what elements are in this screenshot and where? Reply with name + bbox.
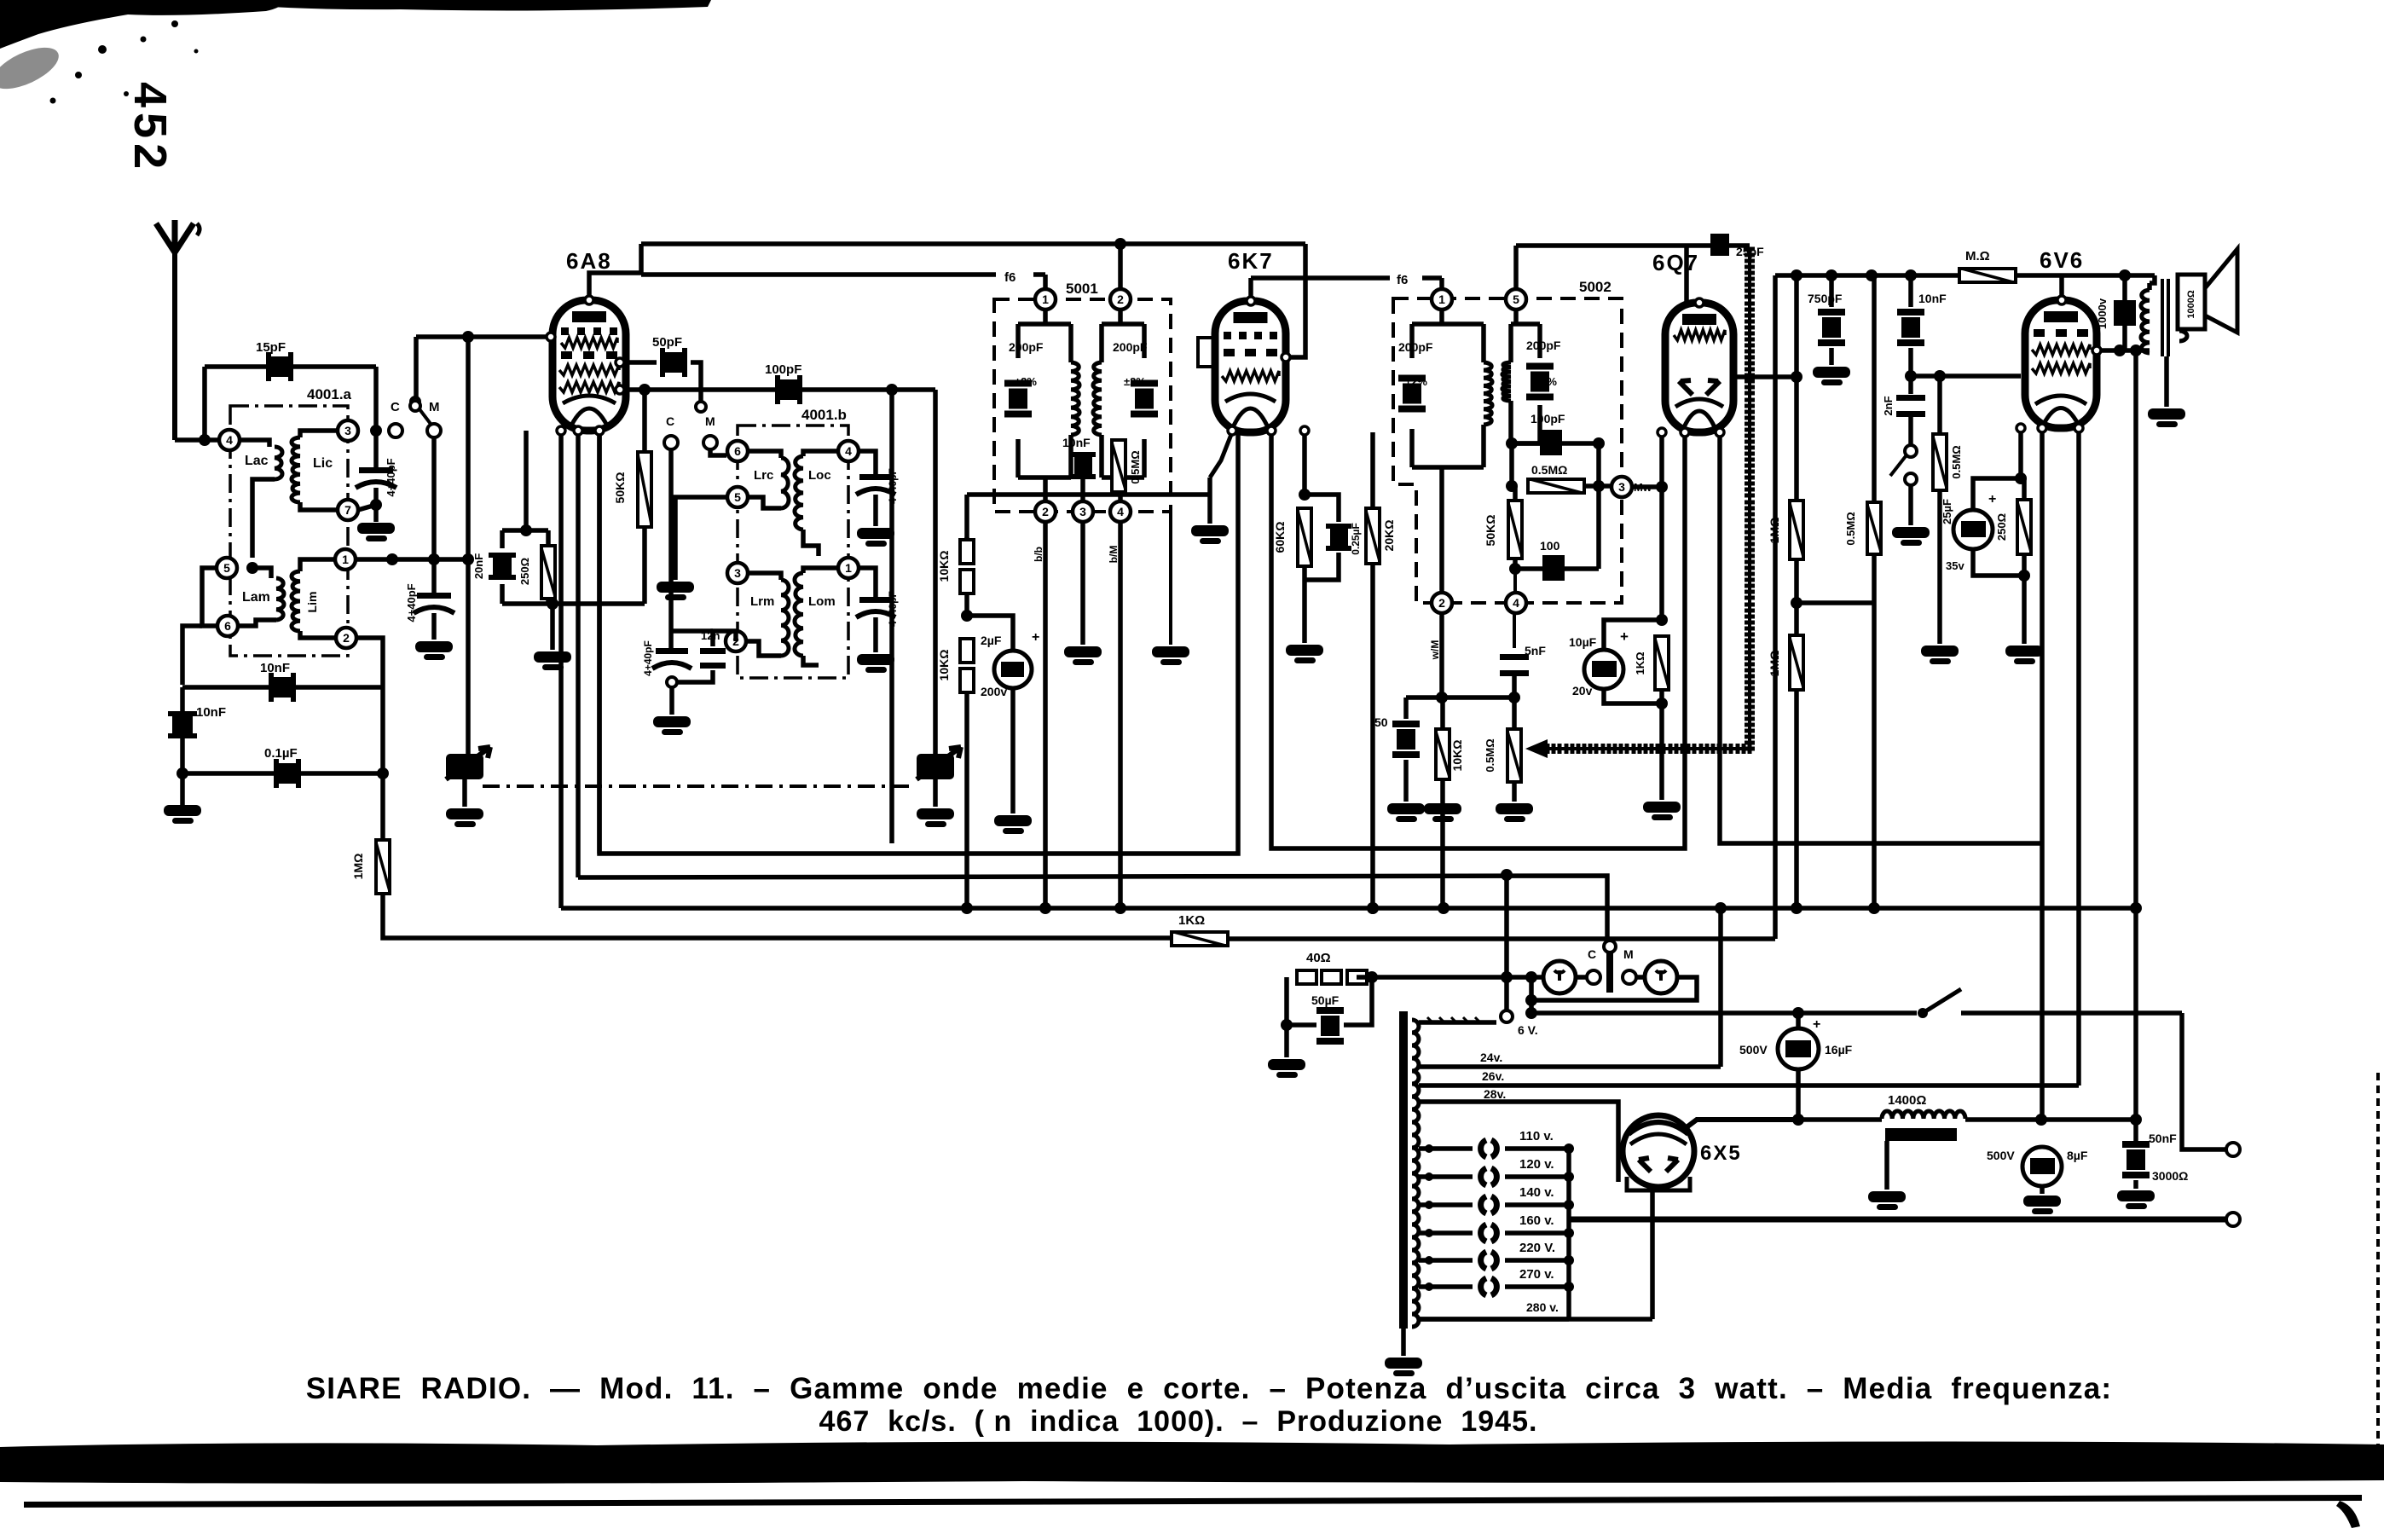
wire 1M to AF line: [383, 894, 1172, 938]
svg-text:0.5MΩ: 0.5MΩ: [1484, 738, 1496, 772]
cathode bias 6A8: [524, 431, 529, 530]
tube pin bubbles: [547, 333, 555, 341]
svg-text:200pF: 200pF: [1113, 340, 1148, 354]
6X5 base: [1627, 1177, 1690, 1190]
wire anode feed down: [2133, 350, 2138, 1143]
svg-text:10µF: 10µF: [1569, 635, 1597, 649]
svg-text:C: C: [666, 414, 674, 428]
svg-text:0.5MΩ: 0.5MΩ: [1844, 512, 1857, 545]
resistor 50k grid leak: [642, 390, 647, 452]
ground below M trimmer: [415, 641, 453, 652]
svg-text:200v: 200v: [981, 685, 1007, 698]
contact M jack: [1623, 970, 1636, 984]
capacitor 15pF: [271, 356, 288, 377]
svg-text:M: M: [705, 414, 715, 428]
svg-text:200pF: 200pF: [1398, 340, 1433, 354]
grid rail 6Q7: [1516, 243, 1750, 248]
terminal 1 IF1: [1035, 289, 1056, 310]
oscillator gang line: [889, 390, 894, 843]
capacitor 100: [1515, 566, 1599, 571]
tap 26v: [1419, 1083, 2079, 1088]
tap 110 v.: [1419, 1146, 1473, 1151]
ground 40 ohm: [1268, 1059, 1305, 1070]
ground choke core: [1884, 1141, 1889, 1190]
resistor 1M ohm: [376, 840, 390, 894]
6V6 heater wires: [2040, 428, 2045, 1120]
contact C jack: [1576, 975, 1588, 980]
svg-text:±2%: ±2%: [1015, 375, 1037, 388]
svg-text:500V: 500V: [1987, 1149, 2015, 1162]
resistor 10k: [1436, 729, 1449, 779]
wire terminal5 to ground: [675, 497, 726, 580]
svg-text:M: M: [1623, 947, 1634, 961]
svg-text:4: 4: [1513, 596, 1519, 610]
ground 50nF: [1387, 803, 1425, 814]
svg-text:10nF: 10nF: [196, 705, 226, 720]
rail 6K7 to IF2: [1251, 275, 1390, 281]
ground 6A8 cathode: [534, 651, 571, 663]
terminal 1 IF2: [1432, 289, 1452, 310]
svg-text:500V: 500V: [1739, 1043, 1768, 1057]
B+ to anode feed: [2041, 1117, 2136, 1122]
wire C osc to padder: [668, 449, 674, 648]
capacitor 2nF anode: [2122, 275, 2127, 300]
coil Lim: [300, 559, 336, 571]
wire 6A8 pin to avc bus: [558, 431, 564, 908]
IF transformer 5001 box: [994, 299, 1171, 512]
capacitor 50uF: [1287, 977, 1316, 1025]
tuning gang line 1: [466, 337, 471, 754]
IF2 primary: [1412, 321, 1484, 327]
svg-text:M: M: [429, 400, 440, 414]
IF transformer 5002 box: [1393, 298, 1622, 603]
svg-text:3: 3: [734, 566, 741, 580]
svg-text:7: 7: [344, 503, 351, 517]
svg-text:±2%: ±2%: [1405, 375, 1427, 388]
capacitor 2nF tone: [1908, 376, 1913, 394]
resistor 0.5M right: [1872, 275, 1877, 502]
svg-text:C: C: [1588, 947, 1596, 961]
wires below IF1: [1043, 522, 1048, 908]
svg-text:4: 4: [226, 433, 233, 447]
IF1 primary: [1018, 321, 1071, 327]
svg-text:1: 1: [1042, 292, 1049, 306]
terminal 2: [336, 628, 356, 648]
pickup jack right: [1645, 961, 1677, 993]
svg-text:6K7: 6K7: [1228, 248, 1274, 274]
terminal 4 osc: [838, 441, 859, 461]
primary plug circle: [1501, 1010, 1513, 1022]
tube 6X5 rectifier: [1623, 1115, 1694, 1187]
svg-text:b/M: b/M: [1108, 546, 1120, 564]
wire down to 1M resistor: [380, 687, 385, 840]
svg-text:10nF: 10nF: [1062, 436, 1091, 449]
output transformer: [2147, 283, 2152, 290]
tube 6Q7: [1665, 303, 1733, 432]
wire 6A8 top cap to anode rail: [589, 244, 641, 300]
svg-text:28v.: 28v.: [1484, 1087, 1506, 1101]
coil Loc: [803, 451, 837, 456]
cathode loop bottom: [502, 601, 645, 606]
svg-text:35v: 35v: [1946, 559, 1964, 572]
switch lever: [417, 406, 431, 424]
svg-text:4001.b: 4001.b: [801, 407, 847, 423]
wire M to coil 6: [710, 449, 726, 455]
capacitor 10nF 6V6: [1908, 275, 1913, 307]
svg-text:50KΩ: 50KΩ: [613, 472, 627, 504]
af line 1K: [1172, 932, 1228, 946]
svg-text:+: +: [1032, 630, 1039, 645]
switch bar: [1606, 952, 1613, 993]
svg-text:f6: f6: [1397, 273, 1408, 287]
ground trimmer 1: [857, 654, 894, 665]
resistor 0.5M IF1: [1112, 440, 1125, 492]
heater wire 6A8: [597, 431, 602, 854]
svg-text:200pF: 200pF: [1526, 339, 1561, 352]
wire down to IF1 terminal 1: [1043, 275, 1048, 288]
resistor 10k chain lower: [960, 639, 974, 663]
resistor 1k cathode: [1655, 636, 1669, 690]
cathode 6K7: [1210, 432, 1232, 478]
terminal 4: [219, 430, 240, 450]
gang capacitor 2: [917, 754, 954, 779]
ground 8uF: [2023, 1196, 2061, 1207]
terminal 2 osc: [726, 631, 746, 651]
terminal 1 osc: [838, 558, 859, 578]
svg-text:0.25µF: 0.25µF: [1350, 523, 1362, 555]
svg-text:10KΩ: 10KΩ: [1450, 740, 1464, 772]
svg-text:26v.: 26v.: [1482, 1069, 1504, 1083]
wire to 6V6 grid: [1911, 373, 2021, 379]
svg-text:4+40pF: 4+40pF: [642, 640, 654, 676]
svg-text:250Ω: 250Ω: [518, 558, 531, 585]
svg-text:10nF: 10nF: [1918, 292, 1947, 305]
wire up to terminal 2: [356, 638, 383, 687]
transformer primary top tap: [1419, 1020, 1496, 1025]
svg-text:220 V.: 220 V.: [1519, 1241, 1555, 1255]
wire 10k top: [964, 495, 969, 540]
resistor 10k chain upper: [964, 537, 969, 540]
mech link dash: [483, 784, 914, 788]
wire terminal1 to tuning line: [356, 557, 468, 562]
ground 10k: [1424, 803, 1461, 814]
electrolytic 25uF: [1953, 510, 1993, 549]
svg-text:6: 6: [734, 444, 741, 458]
screen bus: [578, 876, 1607, 941]
svg-text:b/b: b/b: [1033, 547, 1044, 562]
ground 6K7 cathode: [1191, 525, 1229, 536]
svg-text:467 kc/s. ( n indica 1000): 467 kc/s. ( n indica 1000). – Produzione…: [819, 1405, 1538, 1438]
svg-text:1: 1: [1438, 292, 1445, 306]
svg-text:5: 5: [734, 490, 741, 504]
tone switch: [1905, 445, 1917, 457]
svg-text:8µF: 8µF: [2067, 1149, 2088, 1162]
bottom scan band: [0, 1442, 2384, 1484]
volume potentiometer 0.5M: [1507, 729, 1521, 782]
electrolytic 2uF: [967, 616, 1013, 650]
svg-text:0.5MΩ: 0.5MΩ: [1950, 445, 1963, 478]
svg-text:±2%: ±2%: [1124, 375, 1146, 388]
svg-text:5: 5: [1513, 292, 1519, 306]
resistor 50k avc: [1508, 501, 1522, 559]
svg-text:4+40pF: 4+40pF: [405, 583, 418, 622]
wire to 15pF: [202, 367, 207, 440]
transformer core ground: [1401, 1329, 1406, 1356]
svg-text:750pF: 750pF: [1808, 292, 1843, 305]
svg-text:50pF: 50pF: [652, 335, 682, 350]
svg-text:10KΩ: 10KΩ: [937, 650, 951, 681]
scan streak right edge: [2376, 1073, 2380, 1450]
svg-text:w/M: w/M: [1429, 640, 1441, 661]
svg-text:6A8: 6A8: [566, 248, 612, 274]
svg-text:1: 1: [845, 561, 852, 575]
svg-text:1KΩ: 1KΩ: [1634, 651, 1646, 674]
wire IF1 terminal2 to rail: [1118, 244, 1123, 288]
svg-text:1: 1: [342, 553, 349, 566]
power transformer winding: [1399, 1011, 1408, 1329]
svg-text:50µF: 50µF: [1311, 993, 1340, 1007]
svg-text:Lrm: Lrm: [750, 594, 774, 609]
terminal 5 IF2: [1506, 289, 1526, 310]
ground 6Q7 cathode: [1643, 802, 1681, 813]
padder cap 12n: [700, 648, 726, 654]
terminal 2 IF1 top: [1110, 289, 1131, 310]
svg-text:5002: 5002: [1579, 279, 1612, 295]
tube 6A8: [553, 300, 626, 431]
capacitor 50pF: [626, 360, 657, 365]
tap 24v: [1419, 1064, 1721, 1069]
wire M down to tuning line: [431, 437, 437, 559]
svg-text:3: 3: [1079, 505, 1086, 518]
electrolytic 10uF: [1604, 620, 1662, 650]
mains switch: [1918, 1008, 1928, 1018]
svg-text:Lim: Lim: [305, 592, 319, 613]
terminal 3 osc: [727, 563, 748, 583]
6K7 bias network: [1302, 432, 1307, 495]
selector collector: [1566, 1149, 1571, 1319]
svg-text:1MΩ: 1MΩ: [351, 854, 365, 880]
svg-text:4: 4: [845, 444, 852, 458]
svg-text:2: 2: [1438, 596, 1445, 610]
electrolytic 16uF 500V: [1796, 1013, 1801, 1029]
terminal 5: [217, 558, 237, 578]
svg-text:1000Ω: 1000Ω: [2186, 290, 2196, 318]
wire down to node C: [373, 367, 379, 431]
wire 10nF to terminal2: [182, 685, 383, 690]
anode rail f6 left: [641, 241, 1305, 246]
B+ bus: [1798, 1117, 1882, 1122]
svg-text:100pF: 100pF: [765, 362, 801, 377]
HV line 6X5 anode: [1650, 1190, 1655, 1319]
ground gang1: [462, 779, 467, 807]
svg-text:452: 452: [124, 82, 176, 174]
resistor 1M first: [1790, 501, 1803, 559]
output terminal 2: [2226, 1213, 2240, 1226]
tap 160 v.: [1419, 1230, 1473, 1236]
svg-text:100pF: 100pF: [1531, 412, 1565, 426]
capacitor 10nF: [274, 677, 291, 698]
grid1 line 100pF: [620, 387, 935, 392]
terminal 4 IF1: [1110, 501, 1131, 522]
terminal 6 osc: [727, 441, 748, 461]
tap 270 v.: [1419, 1284, 1473, 1289]
contact M: [427, 424, 441, 437]
resistor 40 ohm: [1297, 970, 1316, 984]
capacitor 5nF: [1500, 654, 1529, 660]
trimmer 4+40pF antenna: [373, 431, 379, 467]
terminal 7: [338, 500, 358, 520]
svg-text:4: 4: [1117, 505, 1124, 518]
svg-text:5nF: 5nF: [1525, 644, 1546, 657]
tap 220 V.: [1419, 1258, 1473, 1263]
bottom return line: [1569, 1217, 2227, 1223]
svg-text:15pF: 15pF: [256, 340, 286, 355]
svg-text:3: 3: [344, 424, 351, 437]
wire terminal6 to 10nF line: [182, 626, 202, 685]
heater loop 6K7-6Q7: [1271, 432, 1685, 848]
svg-text:280 v.: 280 v.: [1526, 1300, 1559, 1314]
svg-text:1400Ω: 1400Ω: [1888, 1093, 1926, 1108]
coil Lic: [300, 431, 338, 437]
svg-text:0.1µF: 0.1µF: [264, 746, 298, 761]
svg-text:+: +: [1813, 1017, 1820, 1032]
svg-text:3: 3: [1618, 480, 1625, 494]
input coil box 4001.a: [230, 406, 348, 656]
cathode 6Q7: [1659, 432, 1664, 620]
coil Lom: [803, 568, 837, 573]
svg-text:Loc: Loc: [808, 468, 831, 483]
svg-text:100: 100: [1540, 539, 1560, 553]
electrolytic 8uF 500V: [2022, 1147, 2062, 1186]
ground gang2: [933, 779, 938, 807]
svg-text:50KΩ: 50KΩ: [1484, 515, 1497, 547]
ground below trimmer: [357, 523, 395, 534]
wire 6Q7 diode to avc chain: [1733, 374, 1797, 379]
svg-text:M.Ω: M.Ω: [1965, 249, 1990, 263]
wire junction to 0.5M: [1797, 600, 1874, 605]
terminal 6: [217, 616, 238, 636]
ground 6V6 grid leak: [1921, 646, 1959, 657]
tap 140 v.: [1419, 1202, 1473, 1207]
svg-text:20v: 20v: [1572, 684, 1593, 698]
svg-text:Lac: Lac: [245, 454, 269, 468]
wire 0.1uF line: [182, 771, 383, 776]
coil Lrm: [749, 573, 781, 580]
wire rail to 6V6: [2059, 275, 2064, 300]
capacitor 100pF: [780, 379, 797, 400]
padder trimmer 4+40pF: [656, 648, 688, 654]
svg-text:4001.a: 4001.a: [307, 386, 352, 402]
wiper arrow: [1525, 739, 1548, 758]
resistor 250 ohm: [546, 530, 551, 546]
wire 6K7 top cap: [1248, 278, 1253, 301]
shielded wire to volume: [1548, 744, 1750, 754]
6V6 anode: [2094, 348, 2099, 353]
ground 50nF output: [2117, 1190, 2155, 1201]
wire up to B+ rail: [1773, 275, 1778, 939]
grid4 line 6A8: [416, 334, 551, 339]
svg-text:6Q7: 6Q7: [1652, 250, 1699, 275]
6V6 cathode network: [2018, 428, 2023, 478]
ground tone: [1892, 527, 1930, 538]
svg-text:SIARE RADIO. — Mod. 11. –: SIARE RADIO. — Mod. 11. – Gamme onde med…: [306, 1372, 2113, 1405]
svg-text:10nF: 10nF: [260, 661, 290, 675]
svg-text:5001: 5001: [1066, 281, 1098, 297]
heater loop 6A8-6K7: [599, 431, 1238, 854]
wire 6Q7 top cap: [1684, 246, 1689, 303]
wire switch down to terminal: [2182, 1013, 2227, 1149]
svg-text:6: 6: [224, 619, 231, 633]
wire 6A8 pin to screen bus: [576, 431, 581, 877]
bottom HV tap: [1419, 1317, 1652, 1322]
svg-text:6X5: 6X5: [1700, 1142, 1742, 1165]
B+ rail right: [1775, 273, 2155, 278]
svg-text:50nF: 50nF: [2149, 1132, 2177, 1145]
resistor 0.5M diode load: [1528, 479, 1584, 493]
avc bus: [561, 906, 2136, 911]
wire terminal4 to volume: [1513, 613, 1516, 648]
ground IF1 sec: [1064, 646, 1102, 657]
IF1 secondary: [1102, 321, 1144, 327]
gang 2 line: [933, 390, 938, 754]
speaker: [2178, 275, 2205, 329]
capacitor 10nF antenna: [172, 716, 193, 733]
svg-text:24v.: 24v.: [1480, 1051, 1502, 1064]
svg-text:5: 5: [223, 561, 230, 575]
svg-text:Lam: Lam: [242, 590, 270, 605]
svg-text:20KΩ: 20KΩ: [1382, 520, 1396, 552]
svg-text:120 v.: 120 v.: [1519, 1157, 1554, 1172]
ground 2uF: [994, 815, 1032, 826]
resistor 20k screen: [1370, 432, 1375, 508]
tap 120 v.: [1419, 1174, 1473, 1179]
osc trimmer terminal4: [859, 451, 876, 474]
resistor 250 ohm 6V6: [2022, 478, 2027, 500]
tube 6K7: [1215, 301, 1286, 432]
screen rail to IF1: [641, 272, 996, 277]
svg-text:f6: f6: [1004, 270, 1016, 285]
pickup jack left: [1543, 961, 1576, 993]
coil Lac: [240, 440, 269, 447]
svg-text:20nF: 20nF: [472, 553, 485, 579]
resistor 1M second: [1790, 635, 1803, 690]
coil Lrc: [749, 451, 781, 458]
svg-text:1000v: 1000v: [2096, 298, 2109, 329]
capacitor 750pF: [1829, 275, 1834, 307]
svg-text:10KΩ: 10KΩ: [937, 551, 951, 582]
wire antenna to coil box: [175, 437, 220, 443]
terminal 3 IF1: [1073, 501, 1093, 522]
terminal 3 IF2: [1584, 483, 1612, 489]
wire to terminal 4: [1513, 569, 1517, 592]
dashed corner ground IF1: [1169, 512, 1172, 645]
capacitor 50nF output: [2122, 1141, 2150, 1148]
svg-text:4+40pF: 4+40pF: [385, 458, 397, 496]
svg-text:40Ω: 40Ω: [1306, 951, 1331, 965]
svg-text:6 V.: 6 V.: [1518, 1023, 1538, 1037]
contact C: [389, 424, 402, 437]
svg-text:0.5MΩ: 0.5MΩ: [1531, 463, 1567, 477]
trimmer 4+40pF M branch: [431, 559, 437, 593]
ground 6V6 cathode: [2005, 646, 2043, 657]
svg-text:140 v.: 140 v.: [1519, 1185, 1554, 1200]
bottom rule line: [24, 1495, 2362, 1508]
output terminal 1: [2226, 1143, 2240, 1156]
oscillator switch C: [664, 436, 678, 449]
terminal 3: [338, 420, 358, 441]
terminal 2 IF1 bottom: [1035, 501, 1056, 522]
wire to band switch lever: [414, 337, 419, 399]
